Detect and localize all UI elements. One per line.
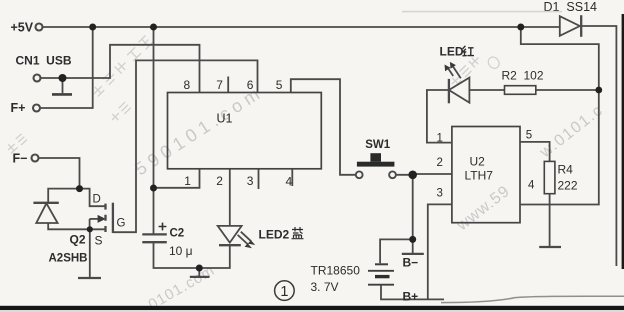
svg-text:3: 3	[247, 174, 254, 188]
svg-text:2: 2	[437, 157, 443, 169]
svg-text:F−: F−	[13, 152, 28, 166]
svg-text:8: 8	[184, 78, 191, 92]
svg-text:6: 6	[247, 78, 254, 92]
svg-text:+5V: +5V	[11, 21, 34, 35]
svg-text:R2 102: R2 102	[502, 69, 544, 83]
svg-text:LTH7: LTH7	[465, 169, 494, 183]
svg-text:222: 222	[558, 179, 578, 193]
svg-text:4: 4	[286, 175, 293, 189]
svg-text:5: 5	[276, 78, 283, 92]
svg-text:D: D	[93, 194, 101, 206]
svg-text:3. 7V: 3. 7V	[311, 280, 339, 294]
svg-text:R4: R4	[558, 163, 574, 177]
svg-text:2: 2	[216, 174, 223, 188]
svg-text:LED2: LED2	[259, 228, 290, 242]
svg-text:G: G	[117, 218, 126, 230]
svg-text:5: 5	[526, 130, 532, 142]
svg-text:U1: U1	[217, 112, 233, 126]
svg-text:3: 3	[437, 188, 443, 200]
svg-text:10 μ: 10 μ	[169, 244, 193, 258]
svg-text:C2: C2	[170, 228, 185, 240]
svg-text:S: S	[95, 234, 103, 248]
svg-text:U2: U2	[470, 155, 486, 169]
svg-text:F+: F+	[11, 101, 26, 115]
svg-text:7: 7	[216, 78, 223, 92]
svg-text:4: 4	[528, 180, 535, 192]
svg-text:1: 1	[184, 174, 191, 188]
svg-text:Q2: Q2	[70, 233, 86, 247]
svg-text:LED: LED	[440, 45, 464, 59]
svg-text:CN1 USB: CN1 USB	[16, 54, 72, 68]
svg-text:B−: B−	[403, 256, 419, 270]
svg-text:TR18650: TR18650	[311, 264, 361, 278]
svg-text:1: 1	[437, 133, 443, 145]
svg-text:1: 1	[280, 284, 288, 300]
svg-text:A2SHB: A2SHB	[49, 253, 88, 265]
svg-text:SW1: SW1	[365, 139, 391, 151]
svg-text:B+: B+	[403, 290, 419, 304]
